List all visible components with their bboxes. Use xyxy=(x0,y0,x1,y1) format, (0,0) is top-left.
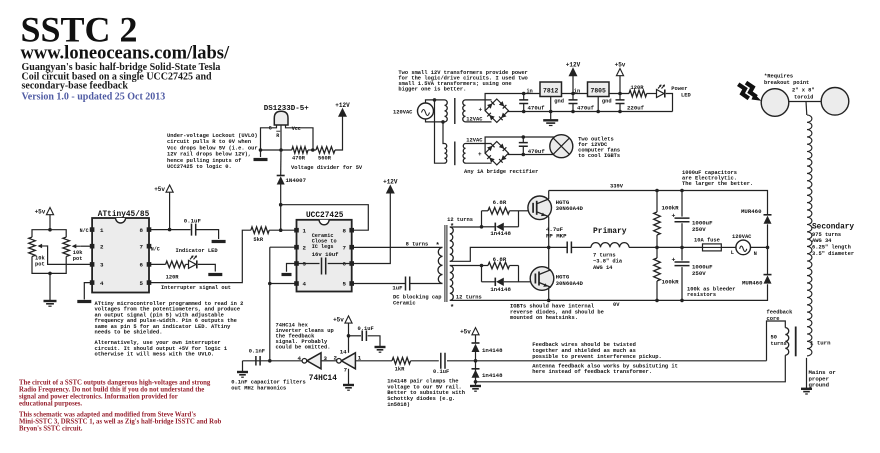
svg-text:100kR: 100kR xyxy=(662,205,680,212)
svg-text:Interrupter signal out: Interrupter signal out xyxy=(161,285,231,291)
svg-text:DS1233D-5+: DS1233D-5+ xyxy=(264,105,310,113)
svg-text:UCC27425: UCC27425 xyxy=(306,212,344,220)
svg-text:2: 2 xyxy=(334,355,338,362)
svg-text:gnd: gnd xyxy=(554,99,564,105)
svg-text:G: G xyxy=(269,125,272,131)
svg-text:7 turns: 7 turns xyxy=(593,252,616,258)
svg-text:8 turns: 8 turns xyxy=(406,242,429,248)
svg-text:1kR: 1kR xyxy=(395,367,405,373)
svg-text:ATtiny45/85: ATtiny45/85 xyxy=(98,211,150,219)
svg-text:12 turns: 12 turns xyxy=(447,217,473,223)
svg-text:7805: 7805 xyxy=(591,87,607,94)
svg-text:6: 6 xyxy=(343,261,347,268)
svg-text:This schematic was adapted and: This schematic was adapted and modified … xyxy=(19,412,196,419)
svg-text:14: 14 xyxy=(340,348,347,355)
svg-text:5: 5 xyxy=(140,280,144,287)
svg-text:6.25" length: 6.25" length xyxy=(812,245,851,251)
svg-text:8: 8 xyxy=(140,227,144,234)
svg-text:breakout point: breakout point xyxy=(764,80,809,86)
svg-text:Secondary: Secondary xyxy=(812,223,854,231)
svg-text:7: 7 xyxy=(343,244,347,251)
svg-text:5kR: 5kR xyxy=(253,237,263,243)
svg-text:2: 2 xyxy=(100,243,104,250)
svg-text:resistors: resistors xyxy=(687,292,716,298)
svg-text:1n4148: 1n4148 xyxy=(482,347,503,354)
svg-text:DC blocking cap: DC blocking cap xyxy=(393,294,442,300)
svg-text:*Requires: *Requires xyxy=(764,74,793,80)
svg-text:1n5818): 1n5818) xyxy=(387,402,410,408)
svg-text:Primary: Primary xyxy=(593,227,627,236)
svg-text:30N60A4D: 30N60A4D xyxy=(556,205,584,212)
svg-text:7812: 7812 xyxy=(543,87,559,94)
svg-text:The circuit of a SSTC outputs: The circuit of a SSTC outputs dangerous … xyxy=(19,380,211,387)
svg-text:Vcc: Vcc xyxy=(292,126,301,132)
svg-text:4: 4 xyxy=(100,280,104,287)
svg-text:100kR: 100kR xyxy=(662,279,680,286)
svg-text:7: 7 xyxy=(140,243,144,250)
svg-text:R: R xyxy=(276,133,279,139)
svg-text:LED: LED xyxy=(681,93,691,99)
svg-text:Power: Power xyxy=(671,86,687,92)
svg-text:1n4148: 1n4148 xyxy=(482,372,503,379)
svg-text:possible to prevent interferen: possible to prevent interference pickup. xyxy=(532,354,661,360)
svg-text:2: 2 xyxy=(303,244,307,251)
svg-text:470uf: 470uf xyxy=(528,148,546,155)
svg-text:+5v: +5v xyxy=(35,208,46,215)
svg-text:ground: ground xyxy=(809,382,830,389)
svg-text:1: 1 xyxy=(303,227,307,234)
svg-text:out MHz harmonics: out MHz harmonics xyxy=(231,385,286,391)
svg-text:+12V: +12V xyxy=(335,102,350,109)
svg-text:www.loneoceans.com/labs/: www.loneoceans.com/labs/ xyxy=(21,44,231,64)
svg-text:*: * xyxy=(450,305,454,313)
svg-text:560R: 560R xyxy=(318,156,332,162)
svg-text:12VAC: 12VAC xyxy=(466,138,483,144)
svg-text:0.1uF: 0.1uF xyxy=(358,326,374,332)
svg-text:to cool IGBTs: to cool IGBTs xyxy=(578,153,620,159)
svg-text:1: 1 xyxy=(358,355,362,362)
svg-text:120VAC: 120VAC xyxy=(393,109,413,115)
svg-text:6: 6 xyxy=(140,262,144,269)
svg-text:The larger the better.: The larger the better. xyxy=(682,181,753,187)
svg-text:220uf: 220uf xyxy=(627,105,645,112)
svg-text:3: 3 xyxy=(100,262,104,269)
svg-text:1n4148: 1n4148 xyxy=(490,286,511,293)
svg-text:signal and power electronics.: signal and power electronics. Informatio… xyxy=(19,394,178,401)
svg-text:12VAC: 12VAC xyxy=(466,116,483,122)
svg-text:3.5" diameter: 3.5" diameter xyxy=(812,251,854,257)
svg-text:UCC27425 to logic 0.: UCC27425 to logic 0. xyxy=(167,164,232,170)
svg-text:educational purposes.: educational purposes. xyxy=(19,401,82,408)
svg-text:6.8R: 6.8R xyxy=(493,256,507,263)
svg-text:470uf: 470uf xyxy=(528,105,546,112)
svg-text:+: + xyxy=(479,107,483,114)
svg-text:10k: 10k xyxy=(35,256,45,262)
svg-text:bigger one is better.: bigger one is better. xyxy=(398,87,466,93)
svg-text:mounted on heatsinks.: mounted on heatsinks. xyxy=(510,315,578,321)
svg-text:470R: 470R xyxy=(292,156,306,162)
svg-text:feedback: feedback xyxy=(767,310,794,316)
svg-text:+5v: +5v xyxy=(615,62,626,69)
svg-text:0.1uF: 0.1uF xyxy=(184,217,202,224)
svg-text:here instead of feedback trans: here instead of feedback transformer. xyxy=(532,369,652,375)
svg-text:*: * xyxy=(450,224,454,232)
svg-text:16v 10uf: 16v 10uf xyxy=(312,251,339,258)
svg-text:in: in xyxy=(526,89,532,95)
svg-text:+12V: +12V xyxy=(566,62,581,69)
svg-text:MUR460: MUR460 xyxy=(741,208,762,215)
svg-text:10k: 10k xyxy=(73,250,83,256)
svg-text:~3.8" dia: ~3.8" dia xyxy=(593,259,623,265)
svg-text:IC legs: IC legs xyxy=(312,244,334,250)
svg-text:1 turn: 1 turn xyxy=(810,340,831,347)
svg-text:0.1nF: 0.1nF xyxy=(249,349,265,355)
svg-text:N: N xyxy=(754,251,757,257)
svg-text:+5v: +5v xyxy=(333,317,344,324)
svg-text:3: 3 xyxy=(303,261,307,268)
svg-text:otherwise it will mess with th: otherwise it will mess with the UVLO. xyxy=(95,352,215,358)
svg-text:Indicator LED: Indicator LED xyxy=(176,248,219,254)
svg-text:Radio Frequency. Do not build: Radio Frequency. Do not build this if yo… xyxy=(19,387,204,394)
svg-text:Vcc drops below 5V (i.e. our: Vcc drops below 5V (i.e. our xyxy=(167,145,258,151)
svg-text:pot: pot xyxy=(35,262,45,268)
svg-text:Ceramic: Ceramic xyxy=(393,301,416,307)
svg-text:0.1uF: 0.1uF xyxy=(433,369,449,375)
svg-text:could be omitted.: could be omitted. xyxy=(276,345,331,351)
svg-text:12V rail drops below 12V),: 12V rail drops below 12V), xyxy=(167,152,251,158)
svg-text:N/C: N/C xyxy=(80,228,89,234)
svg-text:120R: 120R xyxy=(631,85,645,91)
svg-text:AWG 14: AWG 14 xyxy=(593,265,613,271)
svg-text:8: 8 xyxy=(343,227,347,234)
svg-text:secondary-base feedback: secondary-base feedback xyxy=(22,81,129,92)
svg-text:+: + xyxy=(478,151,482,158)
svg-text:turns: turns xyxy=(771,341,787,347)
svg-text:470uf: 470uf xyxy=(577,105,595,112)
svg-text:5: 5 xyxy=(343,281,347,288)
svg-text:1N4007: 1N4007 xyxy=(286,177,307,184)
svg-text:4: 4 xyxy=(298,355,302,362)
svg-text:Voltage divider for 5V: Voltage divider for 5V xyxy=(291,165,363,171)
svg-text:AWG 34: AWG 34 xyxy=(812,238,832,244)
svg-text:Bryon's SSTC circuit.: Bryon's SSTC circuit. xyxy=(19,426,83,433)
svg-text:gnd: gnd xyxy=(602,99,612,105)
svg-text:3: 3 xyxy=(324,355,328,362)
svg-text:toroid: toroid xyxy=(794,94,813,100)
svg-text:Mini-SSTC 3, DRSSTC 1, as well: Mini-SSTC 3, DRSSTC 1, as well as Zig's … xyxy=(19,419,221,426)
svg-text:975 turns: 975 turns xyxy=(812,232,841,238)
svg-text:30N60A4D: 30N60A4D xyxy=(556,280,584,287)
svg-text:MUR460: MUR460 xyxy=(742,279,763,286)
svg-text:339V: 339V xyxy=(610,184,624,190)
svg-text:1uF: 1uF xyxy=(392,284,403,291)
svg-text:L: L xyxy=(731,250,734,256)
svg-text:10A fuse: 10A fuse xyxy=(694,237,720,243)
svg-text:N/C: N/C xyxy=(151,246,160,252)
svg-text:+: + xyxy=(672,213,676,220)
svg-text:*: * xyxy=(436,243,440,251)
svg-text:74HC14: 74HC14 xyxy=(309,375,337,383)
svg-text:120R: 120R xyxy=(166,275,180,281)
svg-text:1n4148: 1n4148 xyxy=(490,230,511,237)
svg-text:+12V: +12V xyxy=(383,179,398,186)
svg-text:12 turns: 12 turns xyxy=(456,295,482,301)
svg-text:2" x 8": 2" x 8" xyxy=(792,87,815,93)
svg-text:250V: 250V xyxy=(692,270,706,277)
svg-text:4: 4 xyxy=(303,281,307,288)
svg-text:7: 7 xyxy=(344,367,348,374)
svg-text:needs to be shielded.: needs to be shielded. xyxy=(95,330,163,336)
svg-text:Version 1.0 - updated 25 Oct 2: Version 1.0 - updated 25 Oct 2013 xyxy=(22,91,166,102)
svg-text:core: core xyxy=(767,316,780,322)
svg-text:circuit pulls R to 0V when: circuit pulls R to 0V when xyxy=(167,139,251,145)
svg-text:+: + xyxy=(672,256,676,263)
svg-text:pot: pot xyxy=(73,256,83,262)
svg-text:+5v: +5v xyxy=(460,328,471,335)
svg-text:PP MKP: PP MKP xyxy=(546,233,567,240)
svg-text:0V: 0V xyxy=(613,302,620,308)
svg-text:6.8R: 6.8R xyxy=(493,199,507,206)
svg-text:120VAC: 120VAC xyxy=(732,234,752,240)
svg-text:50: 50 xyxy=(771,335,777,341)
svg-text:hence pulling inputs of: hence pulling inputs of xyxy=(167,158,241,164)
svg-text:250V: 250V xyxy=(692,226,706,233)
svg-text:1: 1 xyxy=(100,227,104,234)
svg-text:Under-voltage Lockout (UVLO): Under-voltage Lockout (UVLO) xyxy=(167,133,258,139)
svg-text:+5v: +5v xyxy=(154,186,165,193)
svg-text:Any 1A bridge rectifier: Any 1A bridge rectifier xyxy=(464,169,538,175)
